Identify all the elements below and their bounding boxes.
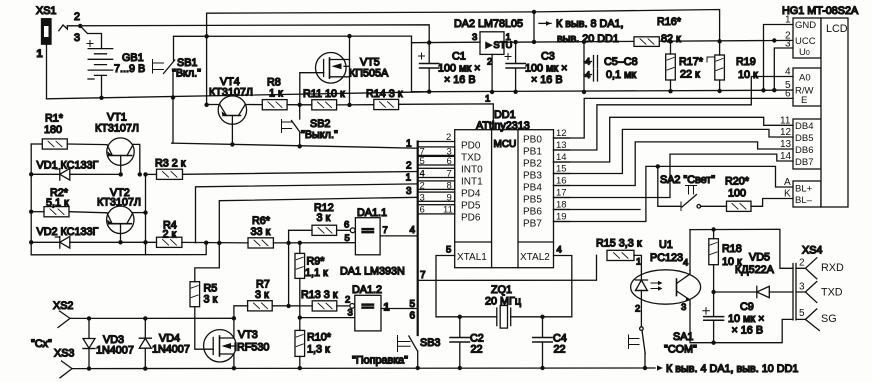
svg-text:XTAL1: XTAL1 — [457, 252, 487, 263]
svg-text:22: 22 — [554, 344, 566, 356]
LCD module HG1 MT-08S2A — [780, 5, 859, 207]
svg-text:3 к: 3 к — [255, 289, 269, 301]
wire U1 pin3 to SG line — [690, 304, 714, 343]
svg-text:3: 3 — [681, 302, 686, 313]
svg-text:2: 2 — [74, 11, 80, 23]
wire VT4 base rail to DD1 bus — [172, 143, 418, 148]
diode VD5 KD522A — [714, 252, 793, 298]
svg-text:PB7: PB7 — [523, 219, 542, 230]
svg-text:"Выкл.": "Выкл." — [301, 129, 338, 141]
node R4-R6 — [204, 241, 208, 245]
connector XS1 power jack — [36, 5, 80, 60]
resistor R6 33k — [248, 215, 273, 248]
node R18 top — [711, 227, 715, 231]
resistor R16 82k in series — [634, 16, 682, 46]
svg-text:× 16 В: × 16 В — [732, 325, 764, 337]
wire R7 to R13 row — [272, 305, 312, 307]
node VD1 left — [29, 172, 33, 176]
svg-text:R1*: R1* — [45, 113, 64, 125]
svg-text:КТ3107Л: КТ3107Л — [95, 123, 139, 135]
wire DA2 gnd pin2 — [491, 54, 493, 92]
svg-text:22: 22 — [471, 344, 483, 356]
wire +5V top rail — [207, 10, 720, 42]
svg-text:LCD: LCD — [826, 23, 848, 35]
svg-text:4: 4 — [585, 70, 590, 81]
resistor R8 1k — [262, 77, 287, 110]
svg-text:DA2 LM78L05: DA2 LM78L05 — [454, 18, 523, 30]
wire PB0 to E — [554, 98, 794, 138]
wire vertical x288.6 R12 to R13 — [288, 230, 290, 306]
svg-text:1: 1 — [37, 48, 43, 60]
diode VD3 1N4007 — [83, 318, 134, 368]
node VD4 bottom — [143, 366, 147, 370]
node VT2 collector — [143, 210, 147, 214]
connector XS2 — [53, 300, 73, 328]
svg-text:6: 6 — [447, 156, 452, 167]
transistor VT3 IRF530 — [204, 329, 270, 362]
node x219 on R4 row — [217, 241, 221, 245]
svg-text:==: == — [362, 226, 375, 238]
wire VT2 collector to x145.5 — [133, 212, 146, 214]
IC DD1 ATtiny2313 — [455, 109, 554, 268]
svg-text:1: 1 — [636, 257, 641, 268]
node XS1 pin3 tap — [78, 24, 82, 28]
node C2 top — [458, 315, 462, 319]
contact XS1 pin3 — [80, 26, 101, 49]
node Uo riser on gnd rail — [772, 88, 776, 92]
svg-text:U1: U1 — [659, 239, 673, 251]
svg-text:3 к: 3 к — [317, 212, 331, 224]
wire DA1.1 output to bus — [380, 235, 418, 237]
node VT1 base — [119, 172, 123, 176]
resistor R12 3k — [289, 202, 337, 235]
svg-text:BL+: BL+ — [795, 184, 813, 195]
svg-text:180: 180 — [44, 124, 62, 136]
svg-text:100 мк ×: 100 мк × — [525, 63, 567, 75]
svg-text:1: 1 — [406, 139, 412, 150]
svg-text:3: 3 — [348, 308, 353, 319]
transistor VT2 KT3107L — [97, 187, 141, 242]
svg-text:33 к: 33 к — [251, 226, 271, 238]
wire vertical x145.5 — [145, 174, 147, 254]
battery GB1 7...9V — [87, 41, 145, 98]
node C1 top raw rail — [427, 40, 431, 44]
resistor R5 3k vertical — [190, 282, 218, 307]
node C1 bottom — [427, 90, 431, 94]
transistor VT4 KT3107L — [209, 76, 253, 146]
transistor VT1 KT3107L — [95, 112, 139, 175]
wire PB1 to A0 — [554, 77, 794, 151]
svg-text:C5–C8: C5–C8 — [604, 56, 638, 68]
svg-text:C3: C3 — [541, 51, 555, 63]
svg-text:R18: R18 — [722, 243, 742, 255]
svg-text:TXD: TXD — [461, 153, 481, 164]
node GB1 minus on ground rail — [99, 96, 103, 100]
svg-text:R15 3,3 к: R15 3,3 к — [596, 238, 642, 250]
wire R20 to BL minus — [751, 199, 793, 207]
node +5 at x534 — [532, 40, 536, 44]
node C4 bottom — [540, 366, 544, 370]
resistor R15 3.3k — [596, 238, 642, 261]
svg-text:11: 11 — [443, 205, 453, 216]
wire R4 to node — [182, 241, 248, 244]
resistor R14 3k — [366, 88, 403, 110]
svg-text:1: 1 — [506, 32, 511, 43]
wire R18 top rail — [690, 229, 793, 268]
wire bus vertical DD1 left — [417, 142, 419, 336]
svg-text:==: == — [362, 301, 375, 313]
svg-text:2: 2 — [635, 304, 640, 315]
optocoupler U1 PC123 — [631, 239, 701, 315]
wire XS1 pin2 to C1 top — [67, 25, 429, 43]
wire HG1 pin1 GND — [764, 25, 794, 91]
node R18 bottom VD5 row — [711, 290, 715, 294]
ground rail middle — [429, 90, 763, 91]
node VT5 drain top — [347, 34, 351, 38]
transistor VT5 KP505A — [300, 53, 389, 105]
node R9 top x299.8 — [298, 241, 302, 245]
node R19 bottom — [717, 89, 721, 93]
svg-text:VD5: VD5 — [749, 252, 770, 264]
svg-text:PD0: PD0 — [461, 141, 481, 152]
wire VT3 source down — [233, 354, 235, 368]
resistor R11 10k — [303, 88, 345, 110]
node VD3 bottom — [87, 366, 91, 370]
svg-text:PB5: PB5 — [523, 195, 542, 206]
wire VT4 collector to R8 — [245, 104, 262, 106]
wire SA2 feed — [658, 166, 681, 206]
resistor R7 3k — [248, 279, 273, 311]
svg-text:КП505А: КП505А — [349, 68, 389, 80]
wire XS2 row — [70, 317, 234, 319]
wire XTAL1 pin5 — [436, 245, 460, 317]
svg-text:1,3 к: 1,3 к — [307, 344, 330, 356]
node R16 right — [668, 39, 672, 43]
svg-text:3: 3 — [472, 32, 477, 43]
crystal ZQ1 20MHz — [460, 284, 543, 328]
op-amp DA1.2 — [345, 284, 390, 331]
node SB1 on ground rail — [171, 95, 175, 99]
node SA1 on gnd rail end — [643, 366, 647, 370]
svg-text:× 16 В: × 16 В — [531, 74, 563, 86]
svg-text:GND: GND — [795, 20, 816, 31]
svg-text:100 мк ×: 100 мк × — [438, 63, 480, 75]
svg-text:8: 8 — [447, 181, 452, 192]
node VT2 base — [118, 240, 122, 244]
wire VT5 drain riser — [349, 36, 351, 105]
svg-text:PB6: PB6 — [523, 207, 542, 218]
node UCC rail — [772, 38, 776, 42]
node R7-R13-x288 — [286, 304, 290, 308]
switch SA2 "Svet" — [660, 174, 727, 211]
svg-text:XS3: XS3 — [54, 348, 74, 360]
node C4 top — [540, 315, 544, 319]
svg-text:RXD: RXD — [821, 262, 844, 274]
LED inside — [640, 272, 642, 280]
svg-text:R19: R19 — [736, 56, 756, 68]
wire R12 to DA1.1 pin6 — [337, 229, 351, 231]
svg-text:5: 5 — [799, 308, 805, 319]
svg-text:PC123: PC123 — [650, 252, 683, 264]
svg-text:9: 9 — [447, 193, 452, 204]
svg-text:5,1 к: 5,1 к — [46, 197, 69, 209]
svg-text:R17*: R17* — [679, 56, 704, 68]
svg-text:DA1.2: DA1.2 — [352, 284, 382, 296]
capacitors C5-C8 0.1u — [584, 42, 638, 92]
svg-text:PB2: PB2 — [523, 159, 542, 170]
svg-text:2: 2 — [446, 132, 451, 143]
wire riser to bus label 1 lower — [196, 184, 418, 243]
node VD3 top — [87, 316, 91, 320]
op-amp DA1.1 — [344, 207, 388, 255]
node R17 bottom — [668, 89, 672, 93]
svg-text:4: 4 — [683, 258, 688, 269]
svg-text:PB4: PB4 — [523, 183, 542, 194]
svg-text:XS2: XS2 — [53, 300, 73, 312]
switch SB2 "Vykl." — [282, 105, 338, 147]
svg-text:7: 7 — [447, 169, 452, 180]
svg-text:6: 6 — [420, 205, 425, 216]
svg-text:5: 5 — [410, 299, 416, 310]
wire R8 to R11 — [287, 104, 312, 106]
zener VD2 KS133G — [31, 226, 120, 248]
wire VT3 drain up — [233, 318, 235, 338]
svg-text:7: 7 — [420, 270, 426, 281]
node C3 top — [513, 40, 517, 44]
diode VD4 1N4007 — [139, 318, 190, 368]
svg-text:DB6: DB6 — [795, 145, 813, 156]
svg-text:6: 6 — [344, 220, 349, 231]
node R9 bottom pin3 row — [298, 315, 302, 319]
capacitor C3 100u — [505, 42, 567, 92]
label K vyv.8 DA1 arrow — [539, 18, 624, 45]
svg-text:ZQ1: ZQ1 — [491, 284, 512, 296]
svg-text:XS4: XS4 — [802, 245, 822, 257]
svg-text:3: 3 — [799, 282, 805, 293]
wire U1 pin2 to SA1 — [640, 303, 642, 327]
svg-text:R10*: R10* — [307, 332, 332, 344]
svg-text:R9*: R9* — [307, 256, 326, 268]
svg-text:DA1 LM393N: DA1 LM393N — [340, 266, 405, 278]
svg-text:0,1 мк: 0,1 мк — [606, 69, 636, 81]
svg-text:1N4007: 1N4007 — [96, 345, 134, 357]
wire TXD tap to R15 — [418, 255, 597, 280]
wire PB6 stub — [554, 209, 641, 211]
resistor R2 5.1k — [31, 187, 107, 217]
svg-text:R13 3 к: R13 3 к — [301, 289, 338, 301]
wire R3 to bus label 2 — [183, 172, 418, 175]
svg-text:6: 6 — [410, 311, 416, 322]
resistor R3 2k — [146, 158, 186, 180]
svg-text:10 к: 10 к — [738, 69, 758, 81]
resistor R18 10k vertical — [709, 230, 742, 293]
node C3 bottom — [513, 90, 517, 94]
svg-text:VD1 КС133Г: VD1 КС133Г — [37, 160, 99, 172]
wire SB1 top to gnd riser line — [174, 35, 412, 37]
wire R11 to riser — [337, 104, 374, 106]
svg-text:SB3: SB3 — [420, 337, 440, 349]
svg-text:3: 3 — [406, 186, 412, 197]
svg-text:PD4: PD4 — [461, 189, 481, 200]
svg-text:7...9 В: 7...9 В — [114, 63, 145, 75]
node VT3 drain — [232, 316, 236, 320]
svg-text:2: 2 — [406, 161, 412, 172]
node R19 top — [717, 39, 721, 43]
wire R6 to DA1.1 pin5 — [273, 242, 355, 244]
wire pin3 row to DA1.2 — [300, 317, 355, 319]
svg-text:"Поправка": "Поправка" — [352, 355, 408, 367]
svg-text:1: 1 — [406, 173, 412, 184]
node VT4 base on rail — [230, 142, 234, 146]
svg-text:2: 2 — [799, 258, 805, 269]
svg-text:выв. 20 DD1: выв. 20 DD1 — [557, 33, 619, 45]
svg-text:4: 4 — [410, 225, 416, 236]
svg-text:DB5: DB5 — [795, 133, 813, 144]
wire PB3 to DB5 — [554, 129, 794, 173]
wire riser x219 to bus label 3 — [219, 197, 417, 243]
svg-text:КД522А: КД522А — [735, 264, 775, 276]
node x145.5 top — [143, 172, 147, 176]
svg-text:VD2 КС133Г: VD2 КС133Г — [37, 226, 99, 238]
svg-text:5: 5 — [420, 156, 425, 167]
wire left vertical bus — [31, 144, 206, 255]
wire vertical battery rail x206.6 — [206, 13, 208, 105]
svg-text:R11 10 к: R11 10 к — [303, 88, 345, 100]
svg-text:INT0: INT0 — [461, 165, 483, 176]
svg-text:1: 1 — [384, 302, 390, 314]
svg-text:100: 100 — [728, 188, 746, 200]
resistor R4 2k — [121, 220, 182, 248]
node SB2 bottom on base rail — [298, 144, 302, 148]
svg-text:R16*: R16* — [657, 16, 682, 28]
svg-text:20 МГц: 20 МГц — [485, 296, 521, 308]
node DA2 pin2 gnd — [490, 90, 494, 94]
DD1 left pin table — [418, 132, 455, 216]
svg-text:1: 1 — [485, 94, 490, 105]
wire XS1 pin1 down — [46, 44, 48, 99]
svg-text:"Вкл.": "Вкл." — [172, 68, 201, 80]
svg-text:2: 2 — [345, 295, 350, 306]
ground rail left (battery minus) — [47, 92, 430, 99]
svg-text:10 мк ×: 10 мк × — [728, 313, 764, 325]
node C2 bottom — [458, 366, 462, 370]
node C5-C8 top — [582, 40, 586, 44]
wire +5 rail from DA2 out — [504, 40, 793, 42]
wire HG1 pin3 Uo to gnd — [774, 48, 793, 90]
node pin1 riser on gnd rail — [761, 88, 765, 92]
connector XS4 — [793, 245, 844, 331]
capacitor C2 22 — [450, 317, 484, 368]
wire VT4 emitter to rail — [207, 104, 220, 106]
svg-text:2: 2 — [420, 181, 425, 192]
svg-text:INT1: INT1 — [461, 177, 483, 188]
label K vyv.4 DA1 arrow — [647, 363, 798, 375]
svg-text:К выв. 4 DA1, выв. 10 DD1: К выв. 4 DA1, выв. 10 DD1 — [666, 363, 798, 375]
wire PB7 to BL plus — [554, 166, 794, 221]
svg-text:4: 4 — [420, 169, 426, 180]
svg-text:PD6: PD6 — [461, 213, 481, 224]
DD1 left pin names — [457, 141, 487, 264]
wire raw rail to DA2 input — [412, 41, 481, 44]
svg-text:К выв. 8 DA1,: К выв. 8 DA1, — [556, 18, 624, 30]
wire PB5 to DB7 — [554, 154, 794, 197]
svg-text:BL–: BL– — [795, 195, 813, 206]
node R6 right x288.6 — [286, 241, 290, 245]
wire R7 left riser — [234, 306, 248, 319]
svg-text:C9: C9 — [740, 301, 754, 313]
svg-text:XTAL2: XTAL2 — [520, 252, 550, 263]
svg-text:"Сх": "Сх" — [31, 338, 52, 350]
wire R13 to DA1.2 input — [337, 305, 350, 307]
resistor R17 22k vertical — [666, 42, 704, 92]
node +5 branch to DA1/DD1 — [532, 10, 536, 14]
svg-text:7: 7 — [383, 225, 388, 236]
svg-text:1 к: 1 к — [269, 88, 283, 100]
svg-text:4: 4 — [585, 57, 590, 68]
svg-text:E: E — [801, 95, 807, 106]
svg-text:XS1: XS1 — [36, 5, 56, 17]
light arrows — [651, 283, 661, 289]
svg-text:ATtiny2313: ATtiny2313 — [476, 120, 530, 132]
svg-text:PB1: PB1 — [523, 147, 542, 158]
node SA2 tap — [656, 164, 660, 168]
DD1 right pin names — [520, 135, 550, 264]
node VD4 top — [143, 316, 147, 320]
zener VD1 KS133G — [31, 160, 121, 181]
wire PB2 to DB4 — [554, 117, 794, 162]
wire SG return — [714, 319, 793, 342]
node VT4 emitter — [204, 103, 208, 107]
wire R5 top jog — [195, 243, 220, 282]
wire R5 bottom to VT3 gate — [195, 307, 213, 350]
svg-text:R3 2 к: R3 2 к — [155, 158, 186, 170]
svg-text:UCC: UCC — [795, 36, 816, 47]
regulator DA2 LM78L05 — [454, 18, 523, 68]
svg-text:3: 3 — [420, 193, 425, 204]
wire U1 pin4 collector up — [689, 230, 691, 271]
svg-text:R20*: R20* — [725, 176, 750, 188]
svg-text:IRF530: IRF530 — [234, 342, 269, 354]
node VT1 collector join — [138, 172, 142, 176]
svg-text:2 к: 2 к — [163, 229, 177, 241]
capacitor C1 100u — [419, 43, 481, 92]
svg-text:22 к: 22 к — [680, 69, 700, 81]
node R2 left — [29, 210, 33, 214]
svg-text:КТ3107Л: КТ3107Л — [209, 87, 253, 99]
wire VT1 collector down — [133, 144, 140, 174]
svg-text:PB3: PB3 — [523, 171, 542, 182]
svg-text:DA1.1: DA1.1 — [357, 207, 387, 219]
svg-text:SA2 "Свет": SA2 "Свет" — [660, 174, 715, 186]
node top line at x206.6 — [204, 34, 208, 38]
wire XTAL2 pin4 — [543, 245, 572, 317]
wire gnd rail into R/W pin5 — [764, 89, 794, 91]
capacitor C4 22 — [533, 317, 567, 368]
node R10 bottom — [298, 366, 302, 370]
resistor R19 10k trimmer — [707, 41, 758, 91]
wire DA1.2 output to bus — [381, 308, 418, 310]
wire riser x411.5 to C1 bottom — [412, 36, 430, 92]
switch SB3 "Popravka" — [352, 336, 440, 369]
node SB3 bottom on gnd rail — [416, 366, 420, 370]
svg-text:1N4007: 1N4007 — [152, 344, 190, 356]
switch SA1 "COM" — [629, 327, 698, 368]
wire PB4 to DB6 — [554, 142, 794, 186]
node x145.5 on VD2 row — [143, 240, 147, 244]
connector XS3 — [54, 348, 74, 378]
svg-text:TXD: TXD — [821, 287, 843, 299]
svg-text:КТ3107Л: КТ3107Л — [97, 197, 141, 209]
